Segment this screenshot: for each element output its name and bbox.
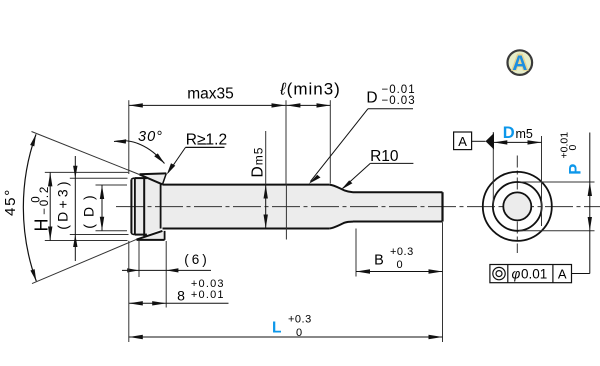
- dimension line 8 shelf: [166, 302, 228, 304]
- extension line (D) bottom: [96, 230, 128, 232]
- dimension line H: [49, 172, 51, 240]
- end view middle circle: [493, 182, 542, 231]
- extension line H bottom: [45, 240, 128, 242]
- extension line H top: [45, 171, 129, 173]
- svg-text:0: 0: [397, 259, 403, 271]
- Dm5 label extension above shaft: [265, 131, 267, 185]
- end view vertical centerline: [516, 156, 518, 254]
- end view outer circle: [483, 172, 552, 241]
- 45 arc bottom arrow: [30, 269, 36, 281]
- head bottom cut right edge: [164, 231, 166, 240]
- leader line D: [310, 109, 368, 182]
- datum triangle: [486, 133, 495, 150]
- label D underline shelf: [368, 108, 413, 110]
- 45 degree construction line upper: [32, 132, 140, 175]
- svg-text:+0.3: +0.3: [390, 246, 414, 258]
- svg-text:φ: φ: [512, 267, 521, 282]
- svg-text:8: 8: [177, 287, 185, 303]
- (6) outside arrow right: [166, 268, 178, 272]
- frame divider 1: [507, 265, 509, 283]
- (D+3) outside arrow bottom: [73, 235, 77, 248]
- head top cut-surface fill: [140, 173, 167, 184]
- extension line shaft step: [285, 100, 287, 184]
- extension line L left: [128, 241, 130, 342]
- leader arrow D: [309, 175, 321, 184]
- 45 degree construction line lower: [32, 239, 136, 283]
- feature control frame box: [490, 265, 572, 283]
- svg-text:Dm5: Dm5: [249, 147, 266, 178]
- head bottom edge: [135, 234, 147, 236]
- svg-text:A: A: [458, 134, 467, 149]
- shaft step feature line: [285, 185, 287, 240]
- dimension line P: [589, 182, 591, 231]
- svg-text:A: A: [512, 52, 527, 75]
- 30 degree angle arc: [114, 141, 165, 164]
- svg-text:D: D: [366, 90, 377, 107]
- frame leader horizontal: [572, 273, 590, 275]
- svg-text:max35: max35: [187, 86, 234, 103]
- svg-text:(D+3): (D+3): [55, 178, 71, 229]
- 30 arc left arrow: [114, 139, 126, 143]
- concentricity symbol outer circle: [493, 267, 505, 279]
- svg-text:(D): (D): [80, 188, 96, 228]
- dimension line P upper extension: [589, 133, 591, 183]
- extension line head left: [128, 100, 130, 174]
- tip bottom edge: [353, 221, 443, 223]
- datum leader line: [472, 140, 486, 142]
- datum A box: [454, 132, 472, 150]
- leader arrow R>=1.2: [167, 163, 176, 174]
- geq second bar: [198, 143, 207, 145]
- svg-text:m5: m5: [516, 127, 533, 141]
- svg-text:30°: 30°: [138, 129, 163, 145]
- extension line (6) left: [138, 241, 140, 277]
- svg-text:R≥1.2: R≥1.2: [186, 131, 227, 148]
- svg-text:45°: 45°: [2, 188, 19, 216]
- svg-text:−0.2: −0.2: [39, 185, 51, 215]
- frame divider 2: [552, 265, 554, 283]
- 30 arc right arrow: [154, 153, 164, 163]
- dimension line (D): [101, 185, 103, 231]
- dimension line (D+3): [74, 156, 76, 261]
- label R10 underline shelf: [370, 162, 413, 164]
- (6) outside arrow left: [127, 268, 139, 272]
- svg-text:R10: R10: [370, 148, 399, 165]
- (D+3) outside arrow top: [73, 166, 77, 179]
- head left face: [130, 180, 132, 233]
- dimension line (6): [122, 269, 211, 271]
- tip top edge: [353, 191, 443, 193]
- svg-text:H: H: [32, 219, 52, 232]
- leader line R10: [343, 163, 371, 188]
- svg-text:A: A: [558, 266, 567, 281]
- head top edge: [135, 177, 147, 179]
- extension line Dm5 end view left: [492, 132, 494, 207]
- head bottom cut-surface fill: [137, 231, 165, 240]
- svg-text:D: D: [503, 124, 515, 142]
- svg-text:−0.03: −0.03: [382, 95, 416, 107]
- head inner vertical edge: [143, 176, 145, 236]
- svg-text:0.01: 0.01: [521, 266, 547, 281]
- extension line B/L right: [442, 222, 444, 342]
- svg-text:B: B: [374, 253, 384, 269]
- leader arrow R10: [341, 180, 352, 189]
- svg-text:ℓ(min3): ℓ(min3): [279, 80, 341, 99]
- extension line Dm5 end view right: [541, 136, 543, 226]
- dimension line l(min3): [286, 104, 330, 106]
- pin body fill: [131, 178, 442, 235]
- dimension line 8: [129, 302, 166, 304]
- detail badge A circle: [508, 50, 533, 75]
- head top flat edge: [140, 172, 167, 175]
- extension line (D+3) top: [70, 177, 128, 179]
- extension line (6)/8 right: [165, 241, 167, 308]
- end view inner circle: [503, 192, 531, 220]
- dimension line Dm5 side view: [265, 185, 267, 229]
- head chamfer boundary vertical: [134, 178, 136, 235]
- head top-left corner chamfer: [131, 178, 135, 180]
- R10 taper top curve: [329, 185, 353, 193]
- leader line R>=1.2: [168, 147, 186, 172]
- frame leader vertical: [589, 231, 591, 274]
- centerline axis: [116, 206, 600, 208]
- svg-text:L: L: [272, 320, 281, 337]
- extension line P top: [519, 181, 595, 183]
- shaft top edge: [163, 184, 330, 186]
- dimension line Dm5 end view: [493, 141, 541, 143]
- head bottom cut diagonal: [137, 231, 163, 240]
- concentricity symbol inner circle: [496, 271, 502, 277]
- svg-text:0: 0: [296, 327, 302, 339]
- svg-text:+0.3: +0.3: [288, 314, 312, 326]
- head top cut diagonal: [140, 175, 163, 185]
- 45 arc top arrow: [30, 134, 36, 146]
- extension line (D) top: [96, 184, 128, 186]
- label R>=1.2 underline shelf: [186, 146, 225, 148]
- head bottom flat edge: [137, 239, 165, 241]
- R10 taper bottom curve: [329, 222, 353, 229]
- svg-text:0: 0: [567, 145, 579, 151]
- dimension line L: [129, 336, 443, 338]
- dimension line B: [356, 271, 443, 273]
- dimension line max35: [129, 104, 286, 106]
- head bottom-left corner chamfer: [131, 233, 135, 235]
- shaft bottom edge: [163, 228, 330, 230]
- extension line taper start: [329, 100, 331, 183]
- svg-text:(6): (6): [184, 252, 210, 267]
- 45 degree angle arc: [23, 134, 36, 281]
- head top cut right edge: [163, 173, 167, 184]
- extension line B left: [355, 229, 357, 277]
- extension line (D+3) bottom: [70, 234, 129, 236]
- head-shaft junction vertical: [160, 185, 162, 229]
- extension line P bottom: [519, 230, 595, 232]
- svg-text:+0.01: +0.01: [191, 289, 225, 301]
- tip right face: [441, 192, 443, 221]
- svg-text:P: P: [567, 164, 585, 175]
